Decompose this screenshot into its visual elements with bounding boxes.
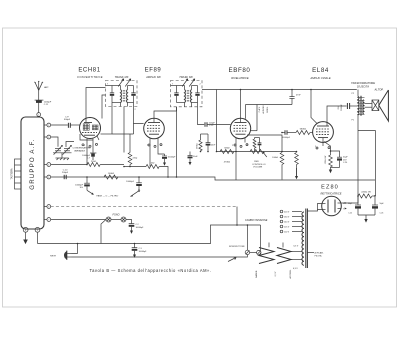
svg-text:10000pF: 10000pF <box>282 137 291 139</box>
svg-text:AI FILAM.: AI FILAM. <box>315 252 324 255</box>
tube V5 EZ80 <box>322 196 347 216</box>
tube label V3 EBF80 <box>229 67 251 80</box>
AVC vertical caption lines <box>258 105 269 113</box>
svg-text:100kΩ: 100kΩ <box>108 172 115 175</box>
svg-text:150Ω 1W: 150Ω 1W <box>324 156 327 165</box>
resistor R4 100k on rail <box>104 172 118 179</box>
screen bypass cap C17 <box>289 90 301 105</box>
wire screen box bottom <box>246 104 293 106</box>
svg-text:10000pF: 10000pF <box>126 181 135 183</box>
label condensatore variabile <box>73 147 92 153</box>
output transformer T3 primary <box>352 93 360 122</box>
svg-text:CONDENSATORE: CONDENSATORE <box>73 147 92 150</box>
tube label V1 ECH81 <box>77 68 103 79</box>
T1 trimmer cap right <box>131 86 135 103</box>
wire T3 primary top to rail <box>357 90 359 97</box>
wire EBF80 plate up to rail <box>240 90 242 119</box>
resistor R8 grid leak vertical with ground <box>295 153 299 180</box>
resistor R7 680k grid EL84 <box>296 128 310 135</box>
svg-text:C.P.: C.P. <box>65 117 69 119</box>
capacitor C9 with band switch <box>126 177 142 196</box>
svg-text:10000pF: 10000pF <box>75 185 84 187</box>
T2 trimmer cap left <box>174 86 178 103</box>
capacitor C.P. 500pF (grid series) <box>64 117 71 128</box>
svg-text:6: 6 <box>48 206 49 208</box>
svg-text:CONTROLLO: CONTROLLO <box>252 164 266 166</box>
wire pin4 AVC line <box>51 164 87 166</box>
svg-text:AMPLIF. FINALE: AMPLIF. FINALE <box>309 76 330 80</box>
svg-text:1MΩ: 1MΩ <box>254 160 259 163</box>
svg-text:ANT.: ANT. <box>44 86 49 89</box>
svg-text:F.U.: F.U. <box>338 105 340 109</box>
wire R3 to ground join <box>159 167 168 178</box>
block pin 5 <box>44 175 51 179</box>
resistor R5 68k <box>220 146 234 163</box>
T1 internal top wires <box>106 84 137 112</box>
label output transformer T3 <box>351 81 375 88</box>
block pin 4 <box>44 163 51 167</box>
wire cap to ECH81 grid <box>70 124 79 126</box>
tube label V4 EL84 <box>309 67 330 80</box>
block pin 2 <box>44 123 51 127</box>
resistor R6 plate load vertical <box>272 153 284 180</box>
tube pin circles EBF80 <box>234 144 248 148</box>
wire T2 screen drop long <box>176 107 178 177</box>
potentiometer volume 1M <box>250 150 267 169</box>
wire fono ground drop <box>101 220 106 244</box>
T2 primary coil <box>182 79 188 107</box>
svg-text:100kΩ: 100kΩ <box>272 156 278 159</box>
wire feedback loop right <box>375 131 377 181</box>
capacitor C15 100pF (EBF80 grid) <box>205 122 215 127</box>
wire jacks joining <box>111 219 121 221</box>
svg-text:RETTIFICATRICE: RETTIFICATRICE <box>321 192 342 196</box>
capacitor C2 phono with ground <box>126 220 144 234</box>
svg-text:470kΩ: 470kΩ <box>196 143 199 149</box>
svg-text:C.26: C.26 <box>380 213 384 215</box>
svg-text:ECH81: ECH81 <box>78 68 100 74</box>
svg-text:1: 1 <box>38 115 39 117</box>
primary winding zigzag S1 <box>259 248 274 264</box>
svg-text:50µF: 50µF <box>343 157 348 159</box>
wire B+ vertical right <box>375 180 377 196</box>
wire feedback loop top <box>358 130 376 132</box>
T1 secondary coil <box>125 79 131 107</box>
block pin 7 <box>44 218 51 222</box>
capacitor C12 screen bypass with ground <box>188 152 199 166</box>
svg-text:125 V: 125 V <box>284 227 290 229</box>
capacitor C16 screen bypass <box>206 134 217 152</box>
wire dashed drop to switch <box>236 207 238 226</box>
svg-text:VARIABILE: VARIABILE <box>74 149 86 152</box>
svg-text:AI DIODI: AI DIODI <box>262 105 265 113</box>
electrolytic C25 <box>348 196 361 215</box>
svg-text:CAMBIO TENSIONE: CAMBIO TENSIONE <box>245 219 268 222</box>
primary winding zigzag S2 <box>277 248 291 264</box>
wire C15 to EBF80 grid <box>207 124 230 126</box>
winding connect wires <box>247 225 301 260</box>
wire ECH81 cathode drop <box>86 144 88 165</box>
svg-text:ACCENS.: ACCENS. <box>289 269 292 278</box>
svg-text:PILOTA: PILOTA <box>315 255 323 258</box>
svg-text:9: 9 <box>37 230 38 232</box>
svg-text:1000pF: 1000pF <box>44 101 52 103</box>
svg-text:2: 2 <box>48 125 49 127</box>
svg-text:110 V: 110 V <box>284 232 290 234</box>
wire AGC rail to 1k resistor <box>124 166 146 168</box>
T2 internal wires <box>171 84 202 103</box>
svg-text:8: 8 <box>25 230 26 232</box>
wire AVC to grid resistor <box>100 164 124 166</box>
svg-text:EBF80: EBF80 <box>229 67 251 74</box>
svg-text:160 V: 160 V <box>284 217 290 219</box>
svg-text:50nF: 50nF <box>193 156 198 158</box>
block pin 6 <box>44 205 51 209</box>
svg-text:Tavola B — Schema dell'appar: Tavola B — Schema dell'apparecchio «Nord… <box>90 268 212 273</box>
wire ECH81 plate to T1 <box>86 88 106 118</box>
mains plug <box>50 251 71 260</box>
tube V3 EBF80 <box>230 118 250 147</box>
heater lead 6.3V lower <box>293 268 298 270</box>
svg-text:TRASF. MF: TRASF. MF <box>115 75 129 79</box>
tube label V5 EZ80 <box>321 185 342 196</box>
svg-text:10000pF: 10000pF <box>136 227 145 229</box>
svg-text:EF89: EF89 <box>145 68 162 74</box>
svg-text:C.10: C.10 <box>63 169 68 171</box>
capacitor F.U. 5000pF <box>338 103 357 111</box>
svg-text:1kΩ: 1kΩ <box>151 162 155 165</box>
svg-text:68kΩ: 68kΩ <box>224 146 230 149</box>
T3 core laminations <box>357 96 365 116</box>
svg-text:ALTOP.: ALTOP. <box>374 88 384 92</box>
wire diode row top <box>255 137 260 139</box>
resistor R1 22k (osc grid) <box>87 160 100 167</box>
tube pin circles EF89 <box>148 144 162 148</box>
switch arrow pointer <box>228 257 236 261</box>
svg-text:2200Ω 2W: 2200Ω 2W <box>361 190 371 193</box>
capacitor C7 10000pF (osc, block) <box>82 153 96 159</box>
tube V2 EF89 <box>144 118 165 146</box>
wire T1 secondary return drop <box>133 124 135 135</box>
svg-text:1: 1 <box>337 198 338 200</box>
wire tube bottom bus <box>92 143 94 153</box>
wire pin3 to tuning gang <box>51 137 58 147</box>
T2 secondary coil <box>189 79 195 107</box>
svg-text:10000pF: 10000pF <box>139 251 148 253</box>
capacitor C10 200pF series pin5 <box>62 169 69 179</box>
wire screen rect bottom <box>247 135 282 152</box>
svg-text:6,3 V: 6,3 V <box>293 268 298 270</box>
block pin9 to bus <box>37 232 39 243</box>
svg-text:2: 2 <box>232 145 233 147</box>
wire T1 primary bottom drop <box>111 103 113 135</box>
svg-text:7: 7 <box>343 209 344 211</box>
wire EBF80 cathode drop <box>235 144 237 152</box>
wire T1 secondary drop to EF89 grid <box>134 103 144 124</box>
label cambio tensione <box>245 219 268 222</box>
svg-text:470kΩ: 470kΩ <box>224 160 231 163</box>
svg-text:RIVEL.: RIVEL. <box>267 106 269 113</box>
winding labels vertical <box>255 269 292 278</box>
wire T2 secondary drop <box>198 103 205 125</box>
tuning gang (condensatore variabile) section A <box>54 145 63 154</box>
phono jack J1 <box>106 217 111 222</box>
svg-text:FASE — O — FILTRO: FASE — O — FILTRO <box>97 194 119 197</box>
wire EF89 screen drop <box>158 143 165 155</box>
tuning gang section B <box>63 142 74 155</box>
svg-text:3: 3 <box>48 137 49 139</box>
wire T4 heater lead right <box>307 252 314 254</box>
T1 core <box>123 90 125 102</box>
block pin 1 (top, antenna) <box>37 113 41 117</box>
wire EL84 screen <box>311 90 317 124</box>
wire pin6 dial lamp dashed <box>51 206 237 208</box>
wire C7 to switch <box>92 157 94 160</box>
T4 voltage taps <box>280 210 302 233</box>
svg-text:C.11: C.11 <box>44 104 49 106</box>
resistor R2 vertical (AGC feed) <box>128 134 138 165</box>
IF transformer T2 box <box>171 81 203 107</box>
IF transformer T1 box <box>106 81 138 107</box>
T2 trimmer cap right <box>195 86 199 103</box>
capacitor diode filter small <box>258 138 262 152</box>
svg-text:FONO: FONO <box>113 214 120 217</box>
wire AVC drop x257 <box>251 105 257 131</box>
wire EF89 plate to T2 <box>154 107 177 119</box>
svg-text:AMPLIF. MF: AMPLIF. MF <box>145 75 161 79</box>
wire T4 to EZ80 plate <box>307 210 317 212</box>
EL84 cathode network: resistor 150 ohm <box>324 142 333 174</box>
wire T1 coil drop long <box>123 107 125 153</box>
resistor R9 screen dropper vertical <box>196 134 203 152</box>
capacitor C3 on bus with ground <box>132 244 147 258</box>
svg-text:5: 5 <box>48 177 49 179</box>
T4 winding column (scallops) <box>302 212 304 265</box>
tube pin circles ECH81 <box>82 143 98 147</box>
svg-text:4: 4 <box>48 164 49 166</box>
RF block GRUPPO A.F. <box>21 117 44 229</box>
resistor R3 1k cathode <box>146 162 159 169</box>
wire EZ80 plates bracket <box>318 204 323 210</box>
wire screen pair top <box>201 133 209 135</box>
resistor diode load small <box>253 138 256 152</box>
keyboard connector TASTIERA <box>11 159 22 189</box>
svg-text:22kΩ: 22kΩ <box>133 157 138 160</box>
T1 trimmer cap left <box>110 86 114 103</box>
svg-text:6,3 V: 6,3 V <box>294 246 299 248</box>
svg-text:EL84: EL84 <box>312 67 329 74</box>
B+ rail lower <box>51 177 375 180</box>
svg-text:INTERRUTTORE: INTERRUTTORE <box>229 246 245 248</box>
svg-text:GRUPPO A.F.: GRUPPO A.F. <box>29 138 36 189</box>
block pin8 ground <box>23 232 28 244</box>
T2 core <box>187 90 189 102</box>
antenna <box>34 81 49 112</box>
tube V4 EL84 <box>313 122 334 148</box>
speaker <box>365 90 389 121</box>
svg-text:680kΩ: 680kΩ <box>300 128 307 131</box>
filter resistor 2200 ohm <box>358 190 376 198</box>
svg-text:220 V: 220 V <box>284 212 290 214</box>
ground bus bottom <box>38 225 261 244</box>
svg-text:10000pF: 10000pF <box>168 157 177 159</box>
svg-text:RIVELATRICE: RIVELATRICE <box>231 76 249 80</box>
phono jack J2 <box>121 217 126 222</box>
filter ground <box>358 215 375 223</box>
svg-text:47nF: 47nF <box>296 95 301 97</box>
wire screen box left <box>245 105 247 119</box>
heater lead 6.3V upper <box>294 246 299 248</box>
capacitor C1 10000pF on rail with ground <box>75 177 118 197</box>
svg-text:D'USCITA: D'USCITA <box>357 84 369 88</box>
svg-text:500pF: 500pF <box>64 119 71 121</box>
svg-text:22kΩ: 22kΩ <box>91 160 97 163</box>
wire pin7 to phono <box>51 219 106 221</box>
power transformer T4 core <box>306 209 308 269</box>
wire T3 primary bottom to B+ vertical <box>357 115 359 203</box>
tube pin circles EL84 <box>316 147 330 149</box>
block pin 3 <box>44 135 51 139</box>
wire pin2 to grid cap <box>51 124 68 126</box>
mains wires to switch <box>72 244 248 258</box>
svg-text:RETE: RETE <box>50 255 56 257</box>
svg-text:VOLUME: VOLUME <box>253 167 263 169</box>
main B+ rail top <box>202 89 357 91</box>
svg-text:140 V: 140 V <box>284 222 290 224</box>
svg-text:TRASF. MF: TRASF. MF <box>179 75 193 79</box>
block pin 9 (bottom right) <box>35 227 40 232</box>
ground arrow below rail right <box>296 168 298 176</box>
wire osc line y134 <box>101 133 113 135</box>
svg-text:C.25: C.25 <box>348 213 352 215</box>
wire EF89 cathode to 1k <box>149 143 151 167</box>
detector rail <box>217 151 297 153</box>
svg-text:TASTIERA: TASTIERA <box>11 168 14 180</box>
svg-text:C.A.V.: C.A.V. <box>258 106 261 112</box>
svg-text:200pF: 200pF <box>62 172 69 174</box>
svg-text:RADDR.: RADDR. <box>255 270 258 278</box>
wire EL84 plate up <box>327 106 347 122</box>
mains switch <box>229 246 261 255</box>
antenna capacitor C10 1000pF <box>35 100 52 106</box>
wire osc line under tube <box>80 134 93 140</box>
svg-text:CONVERTITRICE: CONVERTITRICE <box>77 75 103 79</box>
wire to EL84 grid <box>310 132 313 134</box>
wire ECH81 top-right to T1 cap <box>102 95 106 119</box>
wire EZ80 cathode to filter <box>341 202 358 204</box>
coupling capacitor C18 10000pF <box>282 130 296 139</box>
label ai filamenti <box>315 252 324 258</box>
svg-text:EZ80: EZ80 <box>321 185 339 191</box>
T3 secondary <box>362 100 365 115</box>
wire R2 bottom to rail <box>129 165 131 167</box>
tube V1 ECH81 <box>80 118 101 148</box>
tuning gang common plate and ground <box>53 153 72 160</box>
svg-text:6,3 V: 6,3 V <box>275 271 277 276</box>
svg-text:5000pF: 5000pF <box>341 103 343 111</box>
tube label V2 EF89 <box>145 68 162 79</box>
wire AVC drop <box>216 90 218 152</box>
capacitor C11 with ground (cathode bypass) <box>162 154 176 166</box>
block pin 8 (bottom left) <box>23 227 28 232</box>
EL84 cathode electrolytic 50uF <box>331 151 349 168</box>
svg-text:7: 7 <box>48 219 49 221</box>
T1 primary coil <box>118 79 124 107</box>
electrolytic C26 <box>372 196 385 216</box>
